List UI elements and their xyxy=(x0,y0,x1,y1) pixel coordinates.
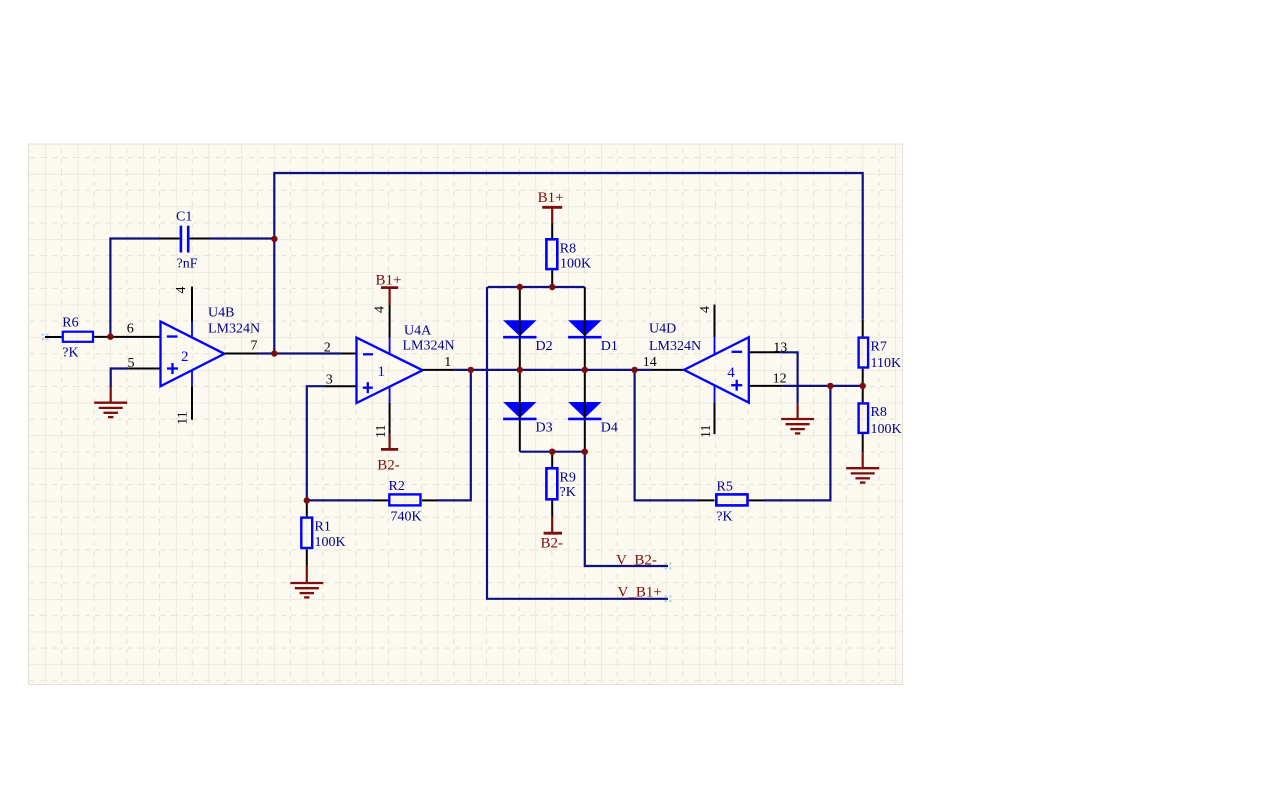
resistor R6 xyxy=(62,315,93,360)
svg-text:1: 1 xyxy=(444,355,451,370)
svg-text:R2: R2 xyxy=(389,479,405,494)
wire R6 left pin xyxy=(45,336,62,338)
svg-text:740K: 740K xyxy=(391,510,422,525)
wire R8 bottom pin xyxy=(551,270,553,287)
svg-text:R8: R8 xyxy=(560,242,576,257)
power B2- below R9 xyxy=(541,517,564,552)
wire U4D pin 11 xyxy=(714,386,716,435)
wire bridge top rail xyxy=(488,286,585,288)
svg-text:R1: R1 xyxy=(315,520,331,535)
svg-text:R5: R5 xyxy=(717,480,733,495)
wire V_B1+ branch xyxy=(487,287,668,599)
resistor R2 xyxy=(389,479,422,524)
svg-text:?K: ?K xyxy=(716,510,732,525)
op-amp U4D xyxy=(649,322,749,403)
junction node bridge top left xyxy=(517,284,523,290)
junction node bridge bottom right xyxy=(582,449,588,455)
svg-text:12: 12 xyxy=(773,371,787,386)
svg-text:V_B1+: V_B1+ xyxy=(618,585,662,601)
wire U4B pin 4 xyxy=(191,287,193,338)
wire bridge left column xyxy=(519,287,521,452)
junction node R6/C1 xyxy=(107,334,113,340)
svg-text:U4D: U4D xyxy=(649,322,676,337)
resistor R8 (top) xyxy=(546,239,591,271)
resistor R1 xyxy=(301,518,345,550)
wire U4B pin 11 xyxy=(191,370,193,420)
resistor R5 xyxy=(716,480,747,525)
svg-text:R8: R8 xyxy=(871,405,887,420)
svg-text:R6: R6 xyxy=(62,315,78,330)
diode D3 xyxy=(503,402,553,436)
svg-text:U4B: U4B xyxy=(208,306,234,321)
svg-text:3: 3 xyxy=(326,373,333,388)
svg-text:C1: C1 xyxy=(176,210,192,225)
wire bridge bottom rail xyxy=(520,451,585,453)
op-amp U4A xyxy=(357,324,455,404)
wire C1 pin stubs xyxy=(160,238,210,240)
svg-text:100K: 100K xyxy=(560,256,591,271)
junction node U4A output xyxy=(468,367,474,373)
svg-text:4: 4 xyxy=(698,306,713,313)
svg-text:4: 4 xyxy=(373,306,388,313)
power B1+ at U4A pin 4 xyxy=(376,272,402,305)
svg-text:B2-: B2- xyxy=(541,536,564,552)
diode D2 xyxy=(503,320,553,354)
junction node R5 tap xyxy=(631,367,637,373)
wire R8 right bottom pin xyxy=(862,434,864,452)
svg-text:13: 13 xyxy=(773,340,787,355)
wire bridge right column xyxy=(584,287,586,452)
svg-text:D2: D2 xyxy=(536,339,553,354)
svg-text:B1+: B1+ xyxy=(376,272,402,288)
svg-text:100K: 100K xyxy=(315,535,346,550)
wire U4D pin 12 net xyxy=(749,385,863,387)
wire R9 top pin xyxy=(551,452,553,468)
junction node bridge mid right xyxy=(582,367,588,373)
resistor R8 (right) xyxy=(859,403,902,436)
wire C1 left net xyxy=(110,239,160,337)
junction node R7/R8 divider xyxy=(860,383,866,389)
junction node bridge mid left xyxy=(517,367,523,373)
power B1+ above R8 xyxy=(538,190,564,223)
wire R8 right top pin xyxy=(862,386,864,402)
hotspot marks R6 open end xyxy=(42,334,49,341)
wire R9 bottom pin xyxy=(551,500,553,516)
op-amp U4B xyxy=(161,306,261,387)
wire U4D pin 4 xyxy=(714,305,716,355)
svg-text:100K: 100K xyxy=(871,422,902,437)
svg-text:?K: ?K xyxy=(62,345,78,360)
svg-text:7: 7 xyxy=(251,339,258,354)
wire R8 top pin xyxy=(551,223,553,239)
resistor R9 xyxy=(546,468,575,500)
svg-text:?nF: ?nF xyxy=(177,256,198,271)
svg-text:2: 2 xyxy=(324,341,331,356)
wire U4A pin 11 xyxy=(389,387,391,434)
svg-text:11: 11 xyxy=(699,425,714,438)
ground below R1 xyxy=(290,566,323,598)
wire R7 top pin stub xyxy=(862,320,864,337)
svg-text:D1: D1 xyxy=(601,339,618,354)
junction node bridge bottom R9 xyxy=(549,449,555,455)
svg-text:D4: D4 xyxy=(601,421,618,436)
svg-text:R9: R9 xyxy=(560,471,576,486)
junction node C1 right xyxy=(271,236,277,242)
wire R2 net (feedback U4A) xyxy=(307,370,471,501)
svg-text:6: 6 xyxy=(127,322,134,337)
wire U4D pin 13 to ground xyxy=(749,352,798,403)
wire V_B2- branch xyxy=(585,452,668,566)
ground at U4B pin 5 xyxy=(94,387,127,417)
resistor R7 xyxy=(859,338,901,371)
junction node R5/pin12 xyxy=(827,383,833,389)
wire U4A output pin 1 to bridge and U4D pin 14 xyxy=(423,369,684,371)
capacitor C1 xyxy=(176,210,198,272)
ground below R8 right xyxy=(846,452,879,483)
svg-text:110K: 110K xyxy=(871,356,902,371)
svg-text:LM324N: LM324N xyxy=(403,338,455,353)
wire R1 top pin xyxy=(306,500,308,516)
power B2- at U4A pin 11 xyxy=(377,434,400,473)
junction node R1/R2/pin3 xyxy=(304,497,310,503)
svg-text:B1+: B1+ xyxy=(538,190,564,206)
svg-text:?K: ?K xyxy=(560,485,576,500)
diode D4 xyxy=(568,402,618,436)
wire R1 bottom pin xyxy=(306,549,308,566)
hotspot marks V_B1+ line end xyxy=(665,595,672,602)
svg-text:4: 4 xyxy=(727,365,735,381)
svg-text:2: 2 xyxy=(181,349,189,365)
svg-text:B2-: B2- xyxy=(377,458,400,474)
schematic sheet background xyxy=(28,144,903,686)
wire C1 right net xyxy=(210,237,275,239)
svg-text:14: 14 xyxy=(643,355,657,370)
wire R7 bottom pin xyxy=(862,369,864,386)
hotspot marks V_B2- line end xyxy=(665,563,672,570)
junction node bridge top R8 xyxy=(549,284,555,290)
wire U4B output pin 7 xyxy=(224,353,356,355)
wire U4B pin 5 xyxy=(111,369,161,388)
wire top feedback from node A to R7 xyxy=(274,173,862,354)
svg-text:5: 5 xyxy=(128,356,135,371)
wire U4A pin 3 net xyxy=(307,386,357,500)
svg-text:R7: R7 xyxy=(871,339,887,354)
svg-text:D3: D3 xyxy=(536,421,553,436)
svg-text:4: 4 xyxy=(174,287,189,294)
wire R6 to U4B pin 6 xyxy=(94,336,160,338)
svg-text:11: 11 xyxy=(374,425,389,438)
wire U4A pin 4 xyxy=(389,305,391,354)
svg-text:1: 1 xyxy=(378,364,386,380)
svg-text:U4A: U4A xyxy=(404,324,432,339)
diode D1 xyxy=(568,320,618,354)
svg-text:11: 11 xyxy=(175,411,190,424)
svg-text:LM324N: LM324N xyxy=(649,339,701,354)
junction node U4B output xyxy=(271,350,277,356)
wire R5 feedback net xyxy=(635,370,831,501)
svg-text:V_B2-: V_B2- xyxy=(616,552,657,568)
ground at U4D pin 13 xyxy=(781,404,814,434)
svg-text:LM324N: LM324N xyxy=(208,322,260,337)
